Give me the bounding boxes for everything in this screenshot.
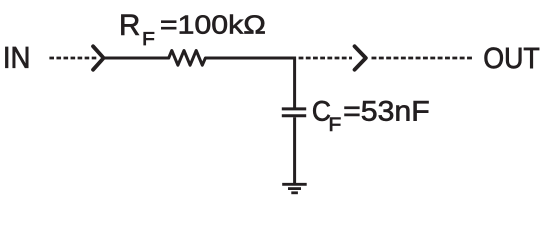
ground symbol bar 2	[288, 187, 301, 190]
wire from resistor to node	[205, 57, 296, 60]
capacitor CF top plate	[282, 107, 306, 110]
ground symbol bar 3	[291, 191, 298, 194]
resistor RF zigzag	[169, 51, 206, 66]
label RF value: R	[121, 15, 139, 35]
label CF value: C	[313, 101, 330, 121]
node IN label	[5, 47, 28, 68]
wire capacitor to ground	[293, 117, 296, 184]
wire dashed output line segment A	[299, 57, 352, 60]
node OUT label	[485, 48, 540, 69]
ground symbol bar 1	[282, 183, 307, 186]
arrowhead output signal	[355, 46, 366, 69]
label CF value: =53nF	[345, 101, 429, 121]
wire node junction vertical drop	[293, 57, 296, 108]
wire dashed output line segment B	[372, 57, 473, 60]
arrowhead input signal	[93, 46, 104, 69]
wire from input arrow to resistor R1	[104, 57, 170, 60]
label CF value: subscript F	[330, 118, 340, 131]
label RF value: =100kOhm	[161, 15, 264, 34]
label RF value: subscript F	[144, 32, 154, 45]
wire dashed input line	[49, 57, 97, 60]
capacitor CF bottom plate	[282, 114, 306, 117]
